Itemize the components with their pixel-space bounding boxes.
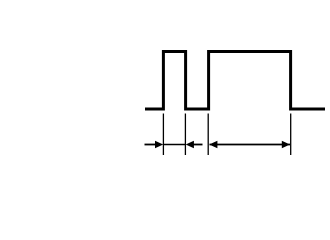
dimension leader right tail of first dimension bbox=[193, 144, 203, 146]
waveform trace (two positive pulses) bbox=[145, 52, 325, 110]
dimension connector between line 1 and line 2 bbox=[163, 144, 185, 146]
extension line 3 (second rising edge) bbox=[207, 114, 209, 156]
extension line 4 (second falling edge) bbox=[290, 114, 292, 156]
arrowhead right-pointing at extension line 4 bbox=[282, 141, 290, 148]
extension line 1 (first rising edge) bbox=[162, 114, 164, 156]
arrowhead left-pointing at extension line 3 bbox=[209, 141, 217, 148]
arrowhead right-pointing at extension line 1 bbox=[155, 141, 163, 148]
arrowhead left-pointing at extension line 2 bbox=[186, 141, 194, 148]
dimension line of second span bbox=[210, 144, 291, 146]
dimension leader left tail bbox=[145, 144, 157, 146]
extension line 2 (first falling edge) bbox=[184, 114, 186, 156]
